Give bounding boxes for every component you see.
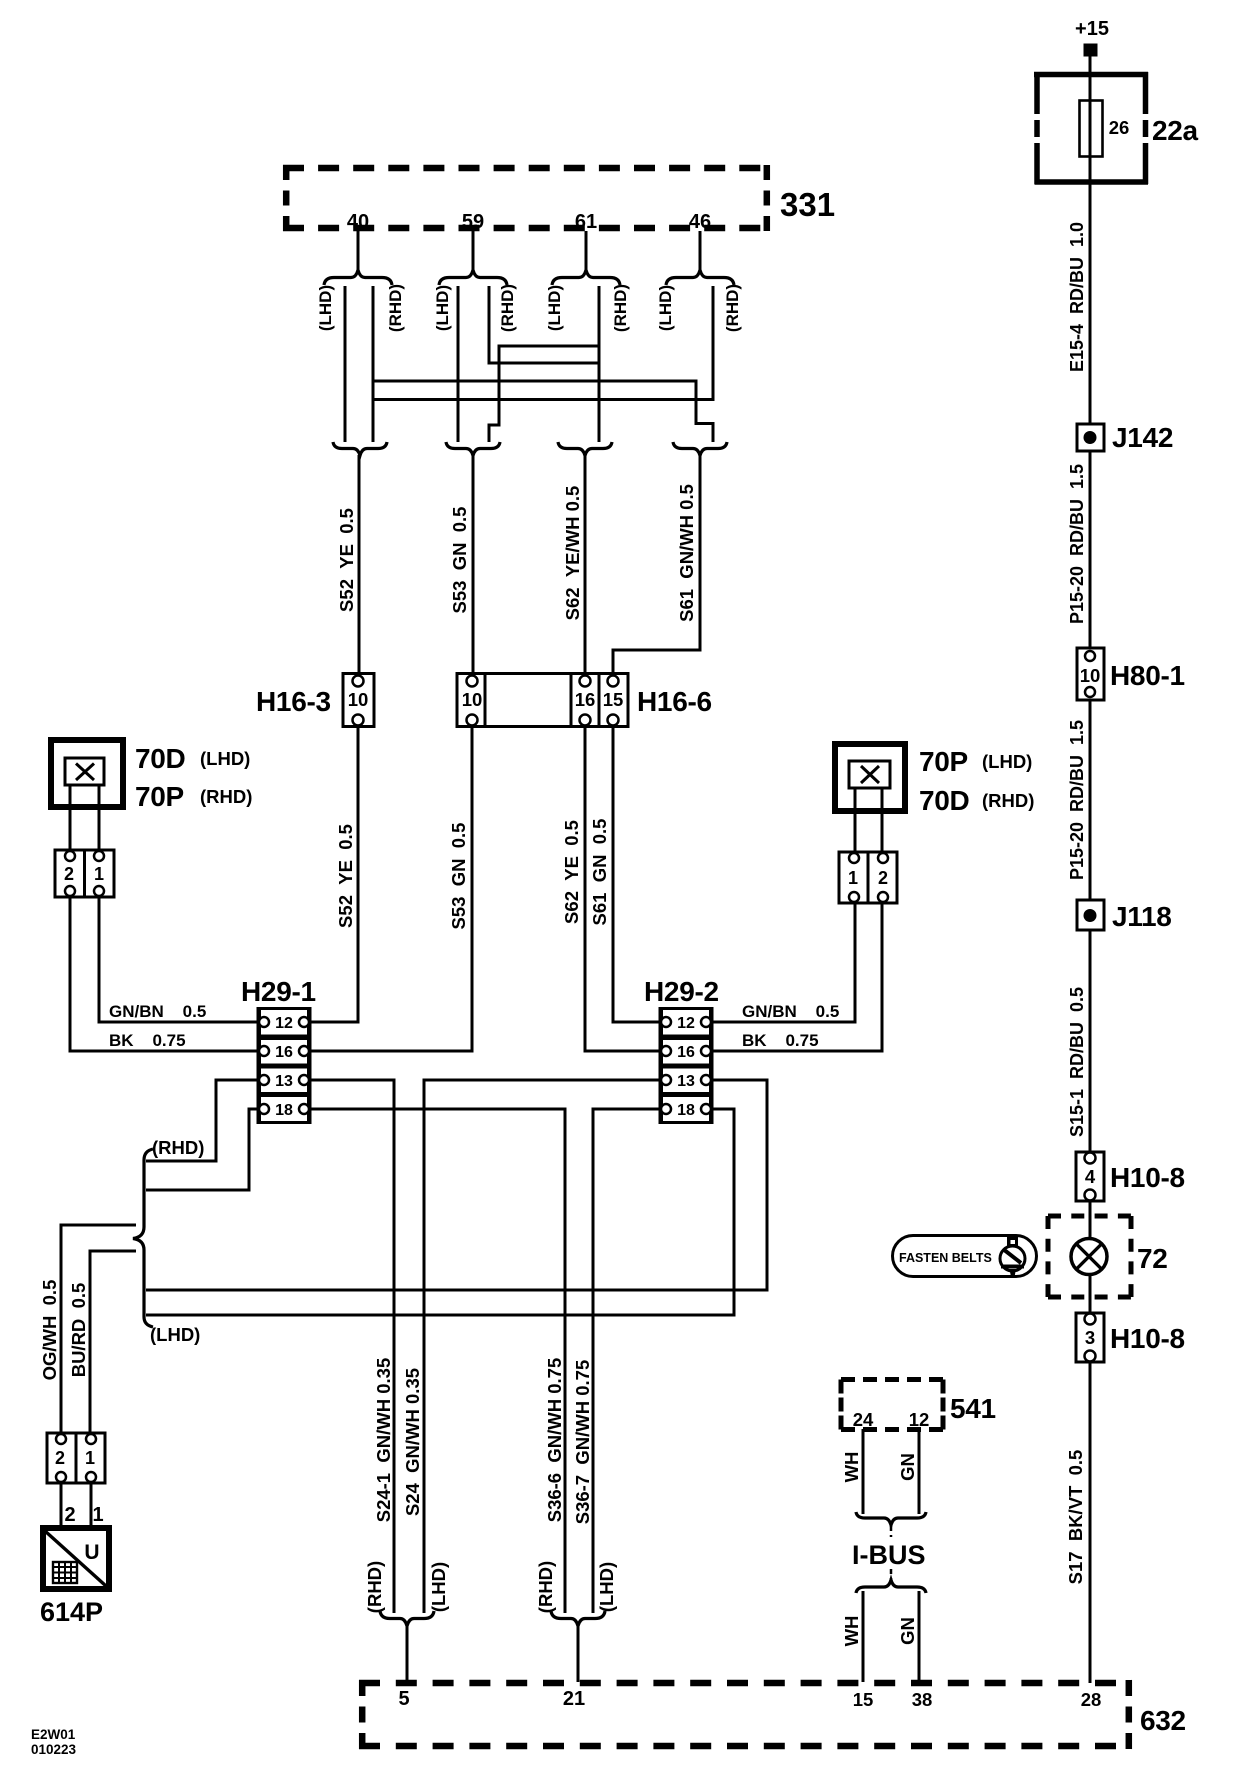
- svg-text:10: 10: [462, 689, 483, 710]
- pin 59 of 331: [462, 211, 484, 272]
- instrument unit 541 (dashed box): [841, 1380, 996, 1431]
- svg-text:(RHD): (RHD): [498, 284, 517, 332]
- brace split pin 46 LHD/RHD: [656, 270, 742, 332]
- wire 40 LHD: [344, 286, 347, 442]
- svg-text:WH: WH: [841, 1452, 862, 1483]
- wire 46 RHD from brace to crossover: [373, 286, 713, 400]
- pin 40 of 331: [347, 211, 369, 272]
- svg-text:(RHD): (RHD): [535, 1561, 556, 1613]
- svg-text:P15-20 RD/BU 1.5: P15-20 RD/BU 1.5: [1067, 720, 1087, 880]
- svg-text:S61 GN 0.5: S61 GN 0.5: [589, 819, 610, 926]
- brace merge S62: [558, 442, 612, 456]
- svg-text:(RHD): (RHD): [152, 1137, 204, 1158]
- svg-text:S36-7 GN/WH 0.75: S36-7 GN/WH 0.75: [572, 1360, 593, 1525]
- wire 70D to connector pins: [69, 785, 72, 851]
- wire 59 RHD to crossover: [489, 286, 599, 363]
- wire S36-7 GN/WH 0.75 from H29-2 pin18: [572, 1109, 661, 1613]
- brace split pin 40 LHD/RHD: [316, 270, 405, 332]
- wire crossover 40RHD to 46 brace: [373, 381, 713, 442]
- svg-text:WH: WH: [841, 1616, 862, 1647]
- svg-text:3: 3: [1085, 1327, 1095, 1348]
- switch 70D/70P (left): [51, 740, 252, 812]
- svg-text:614P: 614P: [40, 1597, 103, 1627]
- brace merge LHD/RHD variants: [133, 1137, 204, 1345]
- wire BU/RD 0.5 to door contact: [68, 1251, 136, 1434]
- svg-text:S53 GN 0.5: S53 GN 0.5: [448, 823, 469, 930]
- pin 61 of 331: [575, 211, 597, 272]
- junction J142: [1077, 422, 1173, 453]
- svg-text:(LHD): (LHD): [200, 748, 250, 769]
- wire crossover 61RHD to 59 brace: [489, 346, 599, 442]
- svg-text:59: 59: [462, 211, 484, 233]
- svg-text:S52 YE 0.5: S52 YE 0.5: [335, 824, 356, 928]
- svg-text:10: 10: [1080, 665, 1101, 686]
- svg-text:15: 15: [853, 1689, 874, 1710]
- wire GN/BN 0.5 to H29-2 pin12: [711, 903, 855, 1022]
- svg-text:E15-4 RD/BU 1.0: E15-4 RD/BU 1.0: [1067, 222, 1087, 372]
- connector H16-3 pin 10: [256, 674, 374, 727]
- svg-text:4: 4: [1085, 1166, 1096, 1187]
- svg-text:(LHD): (LHD): [433, 285, 452, 331]
- svg-text:16: 16: [575, 689, 596, 710]
- svg-text:46: 46: [689, 211, 711, 233]
- svg-text:GN/BN 0.5: GN/BN 0.5: [109, 1002, 206, 1021]
- svg-text:18: 18: [275, 1102, 293, 1119]
- connector H29-1 pins 12/16/13/18: [241, 976, 316, 1123]
- svg-text:GN: GN: [897, 1453, 918, 1481]
- svg-text:61: 61: [575, 211, 597, 233]
- wire WH to 632 pin15: [841, 1591, 863, 1682]
- svg-text:J118: J118: [1112, 901, 1172, 932]
- svg-text:2: 2: [64, 1504, 75, 1526]
- svg-text:OG/WH 0.5: OG/WH 0.5: [39, 1280, 60, 1381]
- svg-text:010223: 010223: [31, 1742, 77, 1757]
- wire 70P to connector pins: [854, 788, 857, 853]
- svg-text:S15-1 RD/BU 0.5: S15-1 RD/BU 0.5: [1067, 987, 1087, 1137]
- svg-text:1: 1: [85, 1448, 95, 1468]
- svg-text:70P: 70P: [135, 781, 184, 812]
- svg-text:H10-8: H10-8: [1110, 1162, 1185, 1193]
- wire OG/WH 0.5 to door contact: [39, 1225, 136, 1434]
- wire S52 YE 0.5 H16-3 to H29-1 pin12: [309, 725, 358, 1022]
- connector H16-6 pins 10/16/15: [457, 674, 712, 727]
- svg-text:12: 12: [909, 1409, 930, 1430]
- svg-text:16: 16: [677, 1044, 695, 1061]
- connector H29-2 pins 12/16/13/18: [644, 976, 719, 1123]
- svg-text:16: 16: [275, 1044, 293, 1061]
- brace merge to pin 21: [551, 1611, 605, 1682]
- svg-text:H80-1: H80-1: [1110, 660, 1185, 691]
- lamp 72 fasten belts warning: [1048, 1216, 1168, 1297]
- pin 46 of 331: [689, 211, 711, 272]
- svg-text:H10-8: H10-8: [1110, 1323, 1185, 1354]
- svg-text:10: 10: [348, 689, 369, 710]
- svg-text:15: 15: [603, 689, 624, 710]
- wire 59 LHD: [457, 286, 460, 442]
- svg-text:28: 28: [1081, 1689, 1102, 1710]
- svg-text:70D: 70D: [919, 785, 970, 816]
- svg-text:(RHD): (RHD): [364, 1561, 385, 1613]
- brace merge to pin 5: [380, 1611, 434, 1682]
- fasten belts indicator symbol: [893, 1236, 1037, 1278]
- wire S61 GN 0.5 H16-6 to H29-2 pin12: [589, 725, 661, 1022]
- connector 2|1 below 70D: [55, 850, 114, 897]
- connector H10-8 pin 4: [1076, 1152, 1185, 1201]
- main instrument 632 (dashed box): [359, 1680, 1186, 1749]
- svg-text:(RHD): (RHD): [386, 284, 405, 332]
- connector 2|1 above 614P: [47, 1433, 105, 1483]
- fuse box 22a: [1034, 72, 1148, 184]
- svg-text:1: 1: [94, 864, 104, 884]
- wire BK 0.75 to H29-2 pin16: [711, 903, 882, 1051]
- control unit 614P: [40, 1528, 109, 1627]
- svg-text:S36-6 GN/WH 0.75: S36-6 GN/WH 0.75: [544, 1358, 565, 1523]
- svg-text:24: 24: [853, 1409, 874, 1430]
- svg-text:70D: 70D: [135, 743, 186, 774]
- svg-text:26: 26: [1109, 117, 1130, 138]
- svg-text:18: 18: [677, 1102, 695, 1119]
- svg-text:+15: +15: [1075, 18, 1109, 40]
- brace merge S52: [333, 442, 387, 456]
- wire S62 YE/WH 0.5 to H16-6: [562, 455, 585, 675]
- svg-text:FASTEN BELTS: FASTEN BELTS: [899, 1251, 992, 1265]
- svg-text:2: 2: [55, 1448, 65, 1468]
- connector 1|2 below 70P: [839, 852, 897, 903]
- control module 331 (dashed box): [283, 165, 835, 231]
- svg-text:S53 GN 0.5: S53 GN 0.5: [449, 507, 470, 614]
- svg-text:I-BUS: I-BUS: [852, 1540, 926, 1570]
- svg-text:BK 0.75: BK 0.75: [742, 1031, 819, 1050]
- svg-text:632: 632: [1140, 1705, 1186, 1736]
- svg-text:70P: 70P: [919, 746, 968, 777]
- svg-text:U: U: [84, 1541, 99, 1564]
- wire main right bus E15-4/P15-20/S15-1/S17: [1089, 56, 1092, 1683]
- wire S52 YE 0.5 to H16-3: [336, 455, 359, 675]
- wire GN to 632 pin38: [897, 1591, 919, 1682]
- brace merge S61: [673, 442, 727, 456]
- svg-text:(RHD): (RHD): [723, 284, 742, 332]
- svg-text:S24 GN/WH 0.35: S24 GN/WH 0.35: [402, 1368, 423, 1516]
- wire 40 RHD to crossover: [372, 286, 375, 442]
- svg-text:BU/RD 0.5: BU/RD 0.5: [68, 1283, 89, 1378]
- node +15 supply terminal: [1075, 18, 1109, 57]
- svg-text:2: 2: [878, 868, 888, 888]
- wire S24 GN/WH 0.35 from H29-2 pin13: [402, 1080, 661, 1613]
- svg-text:E2W01: E2W01: [31, 1727, 76, 1742]
- svg-text:S17 BK/VT 0.5: S17 BK/VT 0.5: [1065, 1450, 1086, 1585]
- switch 70P/70D (right): [835, 744, 1034, 816]
- svg-text:541: 541: [950, 1393, 996, 1424]
- svg-text:38: 38: [912, 1689, 933, 1710]
- wire GN/BN 0.5 to H29-1 pin12: [99, 897, 259, 1022]
- wire H29-2 pin18 right to brace (LHD): [146, 1109, 734, 1315]
- wire H29-2 pin13 right to brace: [146, 1080, 767, 1290]
- brace merge S53: [446, 442, 500, 456]
- svg-text:GN/BN 0.5: GN/BN 0.5: [742, 1002, 839, 1021]
- wire BK 0.75 to H29-1 pin16: [70, 897, 259, 1051]
- svg-text:12: 12: [275, 1015, 293, 1032]
- svg-text:J142: J142: [1112, 422, 1173, 453]
- svg-text:2: 2: [64, 864, 74, 884]
- drawing number: [31, 1727, 77, 1757]
- junction J118: [1077, 900, 1172, 932]
- svg-text:(LHD): (LHD): [316, 285, 335, 331]
- wire S62 YE 0.5 H16-6 to H29-2 pin16: [561, 725, 661, 1051]
- svg-text:S62 YE/WH 0.5: S62 YE/WH 0.5: [562, 486, 583, 621]
- svg-text:H29-1: H29-1: [241, 976, 316, 1007]
- svg-text:H16-3: H16-3: [256, 686, 331, 717]
- svg-text:(LHD): (LHD): [656, 285, 675, 331]
- wire H29-1 pin13 left to brace (RHD): [146, 1080, 259, 1161]
- wire S53 GN 0.5 H16-6 to H29-1 pin16: [309, 725, 472, 1051]
- svg-text:13: 13: [275, 1073, 293, 1090]
- svg-text:GN: GN: [897, 1617, 918, 1645]
- svg-text:H16-6: H16-6: [637, 686, 712, 717]
- svg-text:S61 GN/WH 0.5: S61 GN/WH 0.5: [676, 484, 697, 622]
- svg-text:1: 1: [848, 868, 858, 888]
- svg-text:(LHD): (LHD): [545, 285, 564, 331]
- svg-text:72: 72: [1137, 1243, 1168, 1274]
- svg-text:5: 5: [398, 1688, 409, 1710]
- svg-text:21: 21: [563, 1688, 585, 1710]
- svg-text:(LHD): (LHD): [982, 751, 1032, 772]
- svg-text:(LHD): (LHD): [150, 1324, 200, 1345]
- svg-text:S62 YE 0.5: S62 YE 0.5: [561, 820, 582, 924]
- wire pin 2 to 614P: [61, 1483, 76, 1527]
- connector H80-1 pin 10: [1077, 648, 1185, 700]
- svg-text:(RHD): (RHD): [200, 786, 252, 807]
- svg-text:22a: 22a: [1152, 115, 1199, 146]
- svg-text:13: 13: [677, 1073, 695, 1090]
- svg-text:(RHD): (RHD): [611, 284, 630, 332]
- svg-text:1: 1: [92, 1504, 103, 1526]
- svg-text:P15-20 RD/BU 1.5: P15-20 RD/BU 1.5: [1067, 464, 1087, 624]
- svg-text:S52 YE 0.5: S52 YE 0.5: [336, 508, 357, 612]
- svg-text:(RHD): (RHD): [982, 790, 1034, 811]
- wire GN from 541 pin12: [897, 1429, 919, 1514]
- connector H10-8 pin 3: [1076, 1313, 1185, 1362]
- brace split pin 59 LHD/RHD: [433, 270, 517, 332]
- wire WH from 541 pin24: [841, 1429, 863, 1514]
- svg-text:331: 331: [780, 186, 835, 223]
- wire S53 GN 0.5 to H16-6: [449, 455, 473, 675]
- svg-text:H29-2: H29-2: [644, 976, 719, 1007]
- svg-text:S24-1 GN/WH 0.35: S24-1 GN/WH 0.35: [373, 1358, 394, 1523]
- svg-text:(LHD): (LHD): [596, 1562, 617, 1612]
- wire H29-1 pin18 left to brace: [146, 1109, 259, 1190]
- wire S36-6 GN/WH 0.75 from H29-1 pin18: [309, 1109, 565, 1613]
- brace split pin 61 LHD/RHD: [545, 270, 630, 332]
- svg-text:(LHD): (LHD): [428, 1562, 449, 1612]
- svg-text:BK 0.75: BK 0.75: [109, 1031, 186, 1050]
- wire pin 1 to 614P: [91, 1483, 104, 1527]
- svg-text:12: 12: [677, 1015, 695, 1032]
- wire 61 RHD: [598, 286, 601, 442]
- svg-text:40: 40: [347, 211, 369, 233]
- I-BUS bus symbol: [852, 1512, 926, 1593]
- wire S61 GN/WH 0.5 to H16-6 pin15: [613, 455, 700, 675]
- wire S24-1 GN/WH 0.35 from H29-1 pin13: [309, 1080, 394, 1613]
